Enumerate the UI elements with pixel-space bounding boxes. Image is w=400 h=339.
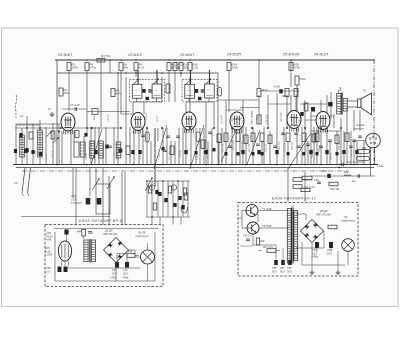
svg-text:R26 33к: R26 33к: [279, 141, 281, 150]
resistor R47 2.2k: [267, 249, 276, 253]
svg-text:БЛОК ПИТАНИЯ ВП-В: БЛОК ПИТАНИЯ ВП-В: [79, 219, 123, 223]
resistor R5 4.7k: [111, 89, 115, 97]
capacitor С28: [294, 132, 298, 134]
wire: speaker return: [311, 130, 341, 132]
junction dots on supply buses: [56, 59, 375, 165]
resistor R43a (top row): [82, 230, 86, 237]
capacitor С35: [352, 139, 356, 141]
wire: lead to block: [21, 216, 110, 218]
wire: right supply drop (dash-dot): [373, 60, 375, 165]
wire: input top rail: [16, 124, 40, 126]
svg-text:С25 560: С25 560: [266, 143, 268, 152]
svg-text:L2 СВ: L2 СВ: [46, 153, 48, 160]
resistor R2 (left column): [59, 88, 63, 96]
wire: anode lead to transformer: [330, 92, 332, 119]
resistor R13: [173, 63, 177, 71]
extra junction blobs row: [162, 147, 339, 155]
resistor R35a (cluster): [184, 193, 188, 200]
resistor R18 (oval, near L3): [196, 132, 200, 142]
svg-text:С49: С49: [71, 194, 76, 198]
svg-text:50,0: 50,0: [272, 270, 277, 273]
svg-text:4,7к: 4,7к: [115, 92, 121, 96]
svg-text:С3 510: С3 510: [52, 150, 54, 158]
ground symbols right block: [311, 270, 313, 272]
coil L-d: [99, 141, 104, 158]
wires: stage interconnect verticals: [22, 60, 370, 164]
resistor R18a (right of module 2, oval): [218, 88, 222, 97]
capacitor C37 0.05: [97, 198, 102, 205]
resistor R35: [153, 203, 156, 210]
svg-text:2,2к: 2,2к: [191, 66, 198, 70]
tube L6 (6E1P) envelope: [316, 112, 330, 133]
svg-text:Др2: Др2: [343, 170, 349, 174]
resistor R8 (oval, near L2): [145, 132, 149, 142]
svg-text:Гр: Гр: [363, 89, 366, 93]
svg-text:R5а: R5а: [94, 115, 96, 120]
resistor R26: [289, 63, 293, 71]
svg-text:4,7к: 4,7к: [138, 66, 144, 70]
rectifier bridge D5-D8 (right block): [301, 220, 324, 243]
wire: lines to right power block: [287, 168, 289, 202]
svg-text:20,0: 20,0: [122, 272, 128, 275]
converter transformer (right block): [287, 208, 297, 264]
capacitor C55 10.0: [329, 242, 333, 248]
svg-text:С18 0,05: С18 0,05: [197, 150, 199, 160]
capacitor С27: [281, 132, 285, 134]
antenna coil L-a (hatched): [20, 135, 25, 157]
resistor R33: [345, 133, 349, 142]
right power block dashed enclosure: [238, 203, 358, 277]
capacitor С33: [328, 139, 332, 141]
capacitor C53 2.0 (right block): [246, 238, 250, 240]
assorted rotated value labels: [24, 148, 362, 160]
svg-text:С48: С48: [314, 178, 319, 182]
pickup jack (gnezdo zvukosnimatelya): [353, 123, 380, 148]
antenna input mark: [51, 112, 53, 114]
tube L1 (6K4P) envelope: [61, 113, 75, 134]
svg-text:С17 100: С17 100: [169, 151, 171, 160]
wire: band-switch dash-dot rail: [22, 170, 348, 172]
capacitor С35а: [358, 135, 362, 137]
svg-text:Л2 6И1П: Л2 6И1П: [127, 53, 143, 57]
resistor R15: [170, 146, 174, 155]
svg-text:470к: 470к: [293, 66, 300, 70]
oscillator coil L7 (long wavy): [154, 128, 156, 187]
svg-text:С5 4-15: С5 4-15: [70, 103, 80, 107]
svg-text:L1 ДВ: L1 ДВ: [24, 153, 26, 160]
resistor R23: [251, 133, 255, 142]
band switch lever B1: [92, 179, 99, 190]
svg-text:С53 2,0: С53 2,0: [243, 235, 252, 238]
wire: screen supply bus: [57, 72, 218, 74]
tube L5 (6P14P) envelope: [287, 111, 301, 132]
svg-text:С22 100: С22 100: [242, 141, 244, 150]
svg-text:С27 0,01: С27 0,01: [285, 142, 287, 152]
capacitor C48: [317, 181, 321, 183]
svg-text:R48: R48: [260, 240, 265, 243]
dial lamp L4 (right block): [342, 239, 355, 252]
capacitor C38a solid (cluster): [155, 190, 158, 194]
capacitor C34b solid: [355, 150, 358, 154]
svg-text:R44: R44: [77, 231, 82, 234]
svg-text:R29 1М: R29 1М: [292, 142, 294, 150]
capacitor C54 10.0 +450v: [315, 242, 319, 248]
svg-text:АВС-80-260: АВС-80-260: [315, 212, 331, 216]
capacitor C13a solid: [138, 150, 141, 154]
svg-text:С11 20: С11 20: [108, 114, 110, 122]
resistor R29: [286, 133, 290, 142]
resistor R21: [236, 133, 240, 142]
resistor R36: [168, 186, 171, 193]
trimmer capacitor C3: [53, 137, 58, 142]
junction blobs near L6: [311, 107, 315, 112]
svg-text:50,0: 50,0: [280, 270, 285, 273]
resistor R10: [126, 146, 130, 155]
resistor R1a: [51, 131, 55, 139]
svg-text:R32 100: R32 100: [339, 141, 341, 150]
wire: speaker leads: [347, 100, 357, 102]
capacitor С11: [108, 145, 112, 147]
capacitor C1 (input, solid): [19, 133, 22, 138]
svg-text:С45 0,047мкФ: С45 0,047мкФ: [347, 160, 364, 164]
svg-text:R47 2,2к: R47 2,2к: [263, 246, 274, 249]
capacitor C1b: [24, 149, 27, 153]
band switch lever B2: [107, 177, 114, 189]
capacitor С39: [158, 192, 161, 196]
wire: verticals to power block (left): [73, 168, 125, 225]
capacitor С15: [166, 135, 170, 137]
svg-text:R20 56к: R20 56к: [232, 113, 234, 122]
resistor R27а: [260, 133, 264, 142]
svg-text:Л4 6Х2П: Л4 6Х2П: [226, 53, 242, 57]
svg-text:270к: 270к: [88, 66, 96, 70]
resistor R37: [183, 188, 186, 195]
output transformer Tr-vyh: [337, 86, 348, 115]
rectifier tube L7 (left block): [58, 241, 71, 266]
svg-text:С46: С46: [322, 169, 327, 173]
resistor R31: [315, 133, 319, 142]
fuse holder (right, upper): [357, 150, 370, 154]
junction dots cluster: [146, 180, 179, 218]
capacitor С16: [176, 135, 180, 137]
resistor R30a (near L6): [304, 103, 308, 111]
svg-text:R27 120к: R27 120к: [281, 111, 283, 122]
tube L2 (6I1P) envelope: [131, 113, 145, 134]
resistor R39 130: [302, 176, 312, 179]
capacitor С26: [273, 145, 277, 147]
resistor R19: [227, 63, 231, 71]
capacitor C51 20.0: [115, 262, 119, 268]
resistor R4: [85, 63, 89, 71]
svg-text:Гр 1ГД-9: Гр 1ГД-9: [360, 151, 362, 160]
capacitor С40: [173, 203, 176, 207]
tube L4 (6X2P) envelope: [230, 112, 244, 133]
junction dots input row: [26, 127, 28, 129]
svg-text:680: 680: [282, 94, 287, 98]
svg-text:С21 30: С21 30: [243, 116, 245, 124]
svg-text:Сп 4700: Сп 4700: [221, 115, 224, 124]
svg-text:Ан: Ан: [19, 114, 24, 118]
resistor R16: [188, 63, 192, 71]
coil L-b: [38, 130, 43, 157]
svg-text:(лампочки): (лампочки): [135, 234, 148, 238]
left power block dashed enclosure: [45, 225, 163, 287]
svg-text:С50 0,05: С50 0,05: [71, 201, 82, 205]
svg-text:R42 1М: R42 1М: [330, 187, 340, 191]
svg-text:Л8,Л9: Л8,Л9: [137, 231, 146, 235]
svg-text:Л6 6Е1П: Л6 6Е1П: [313, 53, 329, 57]
IF transformer module FPC-2: [182, 70, 217, 102]
svg-text:10,0: 10,0: [327, 252, 332, 255]
resistor R9: [134, 63, 138, 71]
resistor R30: [302, 133, 306, 142]
svg-text:Тр: Тр: [339, 86, 343, 90]
svg-text:R3 51к: R3 51к: [101, 54, 111, 58]
tube L3 (6K4P) envelope: [182, 112, 196, 133]
svg-text:20,0: 20,0: [111, 272, 117, 275]
svg-text:R21 220к: R21 220к: [233, 139, 235, 150]
trimmer capacitor C2: [46, 131, 51, 136]
resistor R42 1M: [329, 182, 338, 186]
resistor R1: [67, 63, 71, 71]
resistor R20: [217, 134, 221, 143]
resistor R6: [119, 63, 123, 71]
capacitor C47 0.047: [357, 174, 359, 178]
svg-text:Л1 6К4П: Л1 6К4П: [57, 53, 72, 57]
wires transistors: [238, 211, 288, 229]
svg-text:12,6в: 12,6в: [377, 164, 384, 168]
svg-text:R20 56к: R20 56к: [223, 143, 225, 152]
capacitor C46 0.047: [327, 174, 330, 178]
rotated value labels (comb): [223, 139, 342, 152]
wire: chassis ground bus (double line): [13, 164, 378, 166]
svg-text:С30: С30: [274, 85, 280, 89]
capacitor C32a bars: [319, 145, 323, 147]
wires left block: [54, 229, 158, 282]
resistor R7 (below L1): [75, 131, 79, 138]
capacitor C30 430: [279, 89, 282, 93]
padder capacitor C6 (box): [92, 109, 98, 115]
resistor R48 (right block): [256, 238, 259, 245]
wire: anode supply top bus: [55, 59, 374, 61]
svg-text:100: 100: [63, 91, 68, 95]
resistor R23а: [244, 135, 248, 144]
filter capacitors (solid) left block: [58, 267, 62, 273]
capacitor C48b (top row): [88, 231, 92, 233]
wire: left vertical of supply frame: [56, 60, 58, 165]
transistor T1 P4B: [246, 205, 258, 217]
capacitor C12a bars: [141, 134, 145, 136]
capacitor C1a: [14, 149, 17, 153]
capacitor C5 4-15 (grid of L1): [74, 107, 76, 111]
resistor R20а: [224, 133, 228, 142]
resistor R17: [201, 140, 205, 149]
rectifier bridge D1-D4 (left block): [104, 238, 129, 263]
svg-text:Рег. громк.: Рег. громк.: [250, 109, 254, 124]
svg-text:R45: R45: [128, 251, 133, 254]
fuse holder (right, lower): [357, 157, 370, 161]
capacitor C33a solid: [342, 150, 345, 154]
resistor R46 (right block): [328, 225, 337, 229]
capacitor C34c bars: [362, 147, 366, 149]
svg-text:вкл. сеть: вкл. сеть: [302, 202, 314, 205]
svg-text:120к: 120к: [231, 66, 238, 70]
svg-text:С29 0,05: С29 0,05: [306, 142, 308, 152]
svg-text:АВС-80-260: АВС-80-260: [102, 232, 118, 236]
svg-text:R4 1М: R4 1М: [85, 153, 88, 160]
svg-text:R22: R22: [262, 88, 268, 92]
svg-text:Сб: Сб: [14, 181, 18, 185]
svg-text:Т2 П4Б: Т2 П4Б: [262, 224, 272, 228]
svg-text:С28 30: С28 30: [300, 116, 302, 124]
power transformer Tr-s (left block): [84, 239, 96, 263]
svg-text:С14 30: С14 30: [145, 112, 148, 120]
capacitor С24: [256, 143, 260, 145]
svg-text:С24 0,01: С24 0,01: [266, 114, 269, 124]
wires: dial-cord diagonals: [91, 125, 311, 169]
svg-text:Тр: Тр: [291, 204, 295, 208]
svg-text:БЛОК ПИТАНИЯ БП-12: БЛОК ПИТАНИЯ БП-12: [272, 197, 316, 201]
svg-text:+450в: +450в: [122, 277, 129, 280]
svg-text:Л5 6П14П: Л5 6П14П: [282, 53, 300, 57]
resistor R31a: [312, 134, 316, 142]
band switch lever B3: [145, 178, 152, 191]
svg-text:звукосн.: звукосн.: [353, 127, 365, 131]
tone/feedback network cluster: [146, 181, 190, 217]
capacitor C2a solid: [31, 150, 34, 154]
svg-text:R40 47: R40 47: [304, 178, 313, 182]
capacitor C14a bars: [163, 149, 167, 151]
capacitor С29: [306, 143, 310, 145]
svg-text:68к: 68к: [123, 66, 128, 70]
capacitor C52 20.0: [125, 262, 129, 268]
capacitor C48a (top, solid): [64, 230, 68, 235]
svg-text:(лампочка): (лампочка): [341, 218, 355, 222]
wires: cluster to block links: [152, 217, 181, 225]
decoupling capacitors (solid) row: [94, 150, 328, 154]
svg-text:Гн: Гн: [48, 107, 51, 111]
junction blob (anode): [328, 102, 332, 106]
svg-text:С34 0,25: С34 0,25: [350, 148, 353, 158]
resistor R24 680k: [285, 89, 289, 97]
wires: interconnect horizontals: [15, 91, 334, 128]
svg-text:2,0: 2,0: [45, 269, 50, 273]
resistor R41: [301, 188, 310, 191]
svg-text:С10 0,01: С10 0,01: [98, 148, 100, 158]
svg-text:100к: 100к: [71, 66, 78, 70]
capacitor C34a bars: [349, 145, 353, 147]
wire hook (cluster bottom): [181, 207, 187, 213]
coil L-c: [90, 141, 95, 158]
capacitor C36 0.05: [86, 198, 91, 205]
capacitor C38c solid (cluster): [181, 205, 184, 209]
resistor R32: [335, 135, 339, 144]
dial cord pulley A: [149, 185, 154, 190]
loudspeaker Gr-1: [358, 89, 372, 115]
junction dots mid row: [91, 127, 342, 129]
resistor R34: [148, 186, 151, 193]
rotated labels upper zone: [94, 111, 302, 124]
capacitors C56-C58 50.0 row: [274, 260, 278, 265]
capacitor C44 0.25: [293, 185, 302, 189]
IF transformer module FPC-1: [130, 70, 165, 102]
svg-text:~2НВ: ~2НВ: [46, 253, 53, 257]
wire: oscillator link y111.5: [87, 111, 130, 113]
resistor R22 68k: [257, 89, 261, 97]
coil L3a (hatched): [116, 142, 121, 158]
svg-text:R14 33к: R14 33к: [179, 149, 182, 158]
svg-text:Дп: Дп: [351, 179, 356, 183]
capacitor С19: [208, 131, 212, 133]
svg-text:R32 56: R32 56: [331, 152, 333, 160]
svg-text:С2 180: С2 180: [35, 150, 37, 158]
capacitor C4 (input): [25, 148, 28, 152]
components on y167 right: [338, 167, 340, 169]
resistor R in input: [29, 132, 33, 139]
svg-text:0,05: 0,05: [71, 197, 77, 201]
resistor R3 51k (in supply bus): [97, 58, 105, 62]
resistor R11: [167, 63, 171, 71]
transistor T2 P4B: [247, 222, 259, 234]
junction caps near L1: [84, 133, 87, 137]
svg-text:50,0: 50,0: [287, 270, 292, 273]
svg-text:Л3 6К4П: Л3 6К4П: [179, 53, 194, 57]
resistor R28а: [268, 135, 272, 144]
resistor R25 470k: [295, 76, 299, 85]
resistor R22 volume pot: [257, 115, 261, 124]
dial lamp L-n (left block): [141, 250, 155, 264]
antenna lead (dashed): [15, 95, 17, 118]
resistor R43 (left block): [127, 254, 135, 258]
capacitor C38b solid (cluster): [164, 198, 167, 202]
svg-text:Lг 2,2: Lг 2,2: [157, 115, 159, 122]
svg-text:R12 220: R12 220: [159, 149, 161, 158]
svg-text:+НВ: +НВ: [46, 238, 51, 242]
resistor R40 47: [293, 178, 302, 182]
wires right block: [240, 214, 348, 270]
capacitor С41: [178, 196, 181, 200]
inductor Dr2: [344, 175, 351, 176]
wire: jack leads: [370, 147, 372, 176]
resistor R14: [179, 63, 183, 71]
capacitor C2b solid: [39, 152, 42, 156]
cathode resistor-capacitor pair of L1: [74, 142, 79, 157]
dial cord pulley B: [171, 185, 176, 190]
wire: segment y176: [310, 175, 375, 177]
switch contacts Sb (bottom-left): [22, 168, 25, 193]
svg-text:R22 1М: R22 1М: [249, 144, 251, 152]
capacitor С21: [228, 145, 232, 147]
svg-text:470к: 470к: [299, 77, 306, 81]
svg-text:С: С: [92, 232, 94, 235]
switch box: [96, 184, 110, 214]
capacitor С28а: [297, 145, 301, 147]
resistor R12a (between modules): [166, 84, 170, 93]
